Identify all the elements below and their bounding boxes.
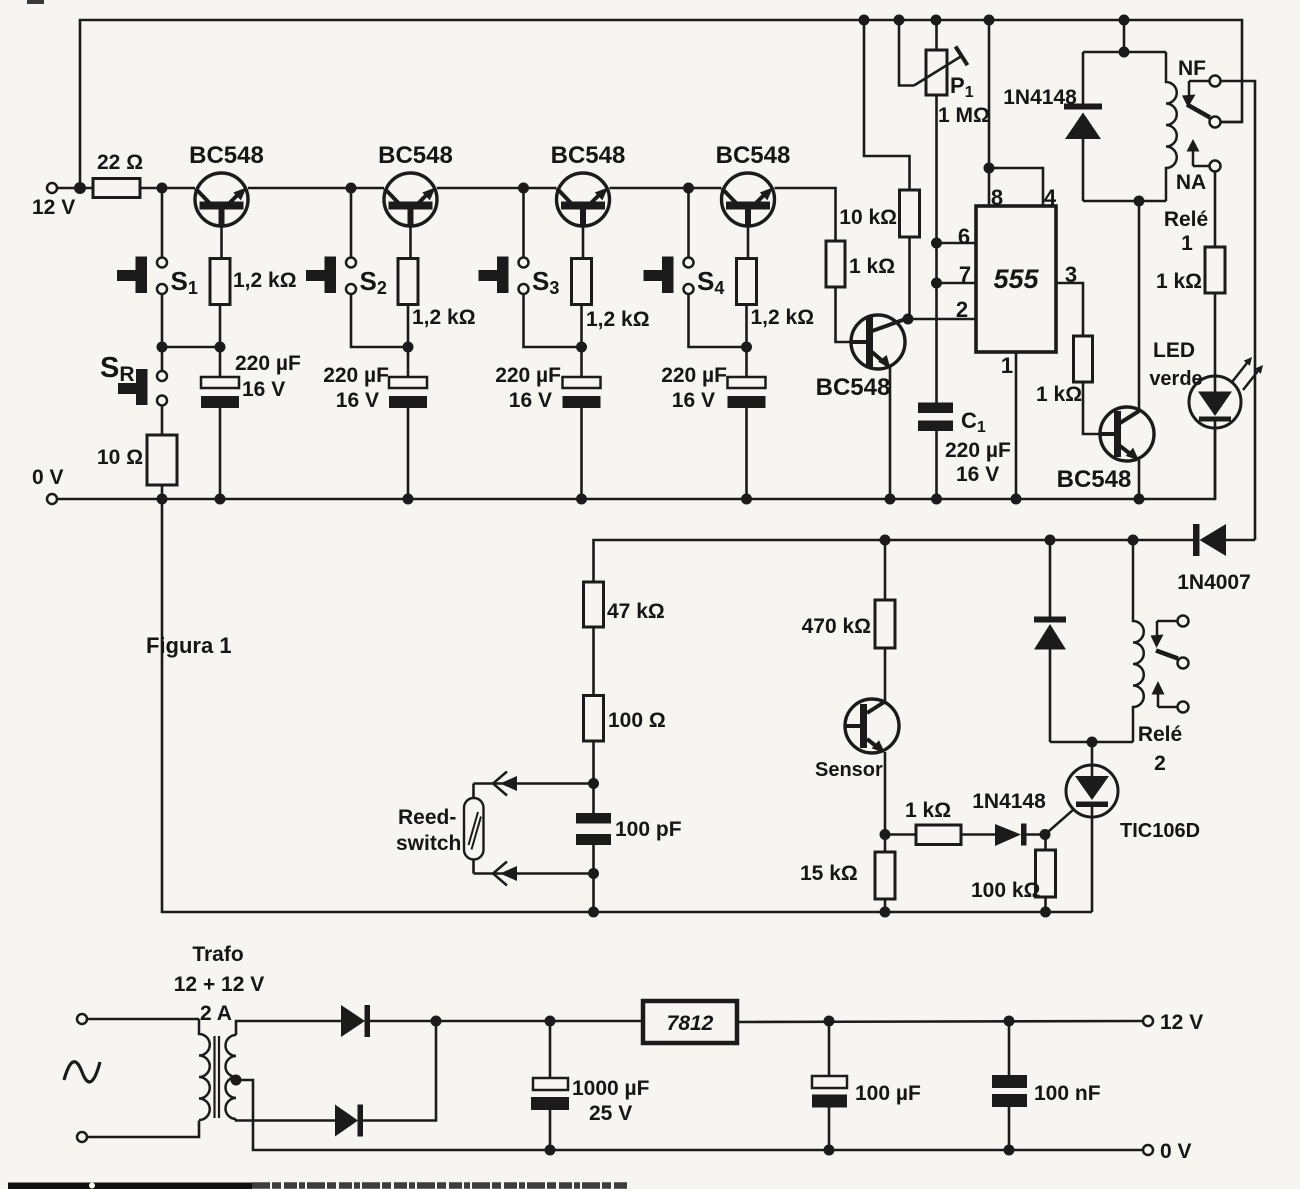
- svg-text:Relé: Relé: [1138, 723, 1182, 746]
- node pins 8-4 junction: [984, 163, 995, 174]
- wire LED cathode to 0V: [1214, 421, 1217, 499]
- capacitor 100 pF: [576, 813, 611, 845]
- svg-text:LED: LED: [1153, 339, 1195, 362]
- switch S1 pushbutton: [117, 257, 167, 295]
- relay 1 coil: [1166, 52, 1177, 201]
- node S3 tap: [518, 183, 529, 194]
- wire 1N4007 anode: [1226, 539, 1255, 542]
- node pin6 junction: [931, 238, 942, 249]
- contact NA relay 2: [1178, 702, 1189, 713]
- wire cap to reed lower node: [592, 845, 595, 874]
- svg-text:1,2 kΩ: 1,2 kΩ: [586, 308, 650, 331]
- wire C1 to 0V: [935, 431, 938, 499]
- wire 100nF bottom: [1008, 1107, 1011, 1150]
- svg-text:1 kΩ: 1 kΩ: [849, 255, 895, 278]
- svg-text:16 V: 16 V: [336, 389, 379, 412]
- svg-text:1,2 kΩ: 1,2 kΩ: [233, 269, 297, 292]
- wire 47k to 100ohm: [592, 627, 595, 696]
- svg-text:Figura 1: Figura 1: [146, 633, 232, 658]
- diode relay 2: [1034, 617, 1066, 650]
- arrow NA: [1187, 139, 1200, 152]
- wire secondary bottom to D2: [236, 1119, 335, 1121]
- svg-text:16 V: 16 V: [956, 463, 999, 486]
- svg-text:100 pF: 100 pF: [615, 818, 682, 841]
- svg-text:220 µF: 220 µF: [945, 439, 1011, 462]
- resistor 100 kohm: [1036, 850, 1056, 897]
- svg-text:6: 6: [958, 224, 970, 249]
- svg-text:22 Ω: 22 Ω: [97, 151, 143, 174]
- svg-text:1000 µF: 1000 µF: [572, 1077, 650, 1100]
- wire resistor to junction stage 2: [407, 305, 410, 348]
- diode D1: [341, 1005, 370, 1037]
- svg-text:220 µF: 220 µF: [661, 364, 727, 387]
- wire reed top lead: [472, 784, 475, 799]
- wire TIC anode: [1091, 742, 1094, 777]
- scan artifact bottom strip: [8, 1183, 628, 1189]
- wire Q4 emitter to 1k: [775, 188, 836, 241]
- wire Q6 collector to relay: [1138, 201, 1141, 411]
- IC U1 555 timer: [976, 206, 1056, 352]
- svg-text:BC548: BC548: [378, 142, 453, 169]
- wire 100uF bottom: [828, 1108, 831, 1151]
- switch S4 pushbutton: [644, 257, 694, 295]
- svg-text:1N4007: 1N4007: [1177, 571, 1251, 594]
- wire diode to gate node: [1027, 833, 1046, 836]
- wire P1 bottom to C1: [935, 95, 938, 403]
- node D1 D2 junction: [431, 1016, 442, 1027]
- resistor 15 kohm: [875, 852, 895, 899]
- svg-text:2: 2: [956, 297, 968, 322]
- capacitor 220uF stage 3: [563, 377, 601, 408]
- wire reed upper arrow line: [474, 782, 594, 785]
- svg-text:1 MΩ: 1 MΩ: [938, 104, 990, 127]
- wire SR to 10ohm: [161, 406, 164, 435]
- svg-text:7: 7: [959, 262, 971, 287]
- node 100k ground: [1040, 907, 1051, 918]
- svg-text:NF: NF: [1178, 57, 1206, 80]
- svg-text:555: 555: [993, 264, 1039, 294]
- svg-text:100 nF: 100 nF: [1034, 1082, 1101, 1105]
- wire 100k to ground: [1044, 897, 1047, 912]
- wire relay2 diode bottom: [1049, 649, 1052, 742]
- node 100uF ground: [824, 1145, 835, 1156]
- wire 0V rail: [57, 426, 1215, 499]
- contact common relay 1: [1210, 117, 1221, 128]
- svg-text:1 kΩ: 1 kΩ: [905, 799, 951, 822]
- svg-text:16 V: 16 V: [672, 389, 715, 412]
- svg-text:Trafo: Trafo: [192, 943, 243, 966]
- wire to S3: [522, 188, 525, 258]
- svg-text:1,2 kΩ: 1,2 kΩ: [751, 306, 815, 329]
- wire AC top to primary: [87, 1018, 199, 1021]
- svg-text:220 µF: 220 µF: [235, 352, 301, 375]
- svg-text:3: 3: [1065, 262, 1077, 287]
- wire cap to 0V stage 4: [745, 408, 748, 499]
- svg-text:1: 1: [1001, 353, 1013, 378]
- svg-text:220 µF: 220 µF: [495, 364, 561, 387]
- node 100uF tap: [824, 1016, 835, 1027]
- svg-text:10 kΩ: 10 kΩ: [839, 206, 897, 229]
- wire resistor to junction stage 1: [219, 305, 222, 348]
- wire 1k to Q6 base: [1083, 382, 1100, 434]
- wire wiper: [899, 20, 914, 86]
- node R2C2 junction: [403, 342, 414, 353]
- node rail relay feed: [1119, 15, 1130, 26]
- wire TIC cathode: [1091, 807, 1094, 912]
- svg-text:1,2 kΩ: 1,2 kΩ: [412, 306, 476, 329]
- node 0V SR column: [157, 494, 168, 505]
- wire D1 to regulator: [370, 1020, 643, 1023]
- terminal 0 V: [47, 494, 57, 504]
- svg-text:12 V: 12 V: [32, 196, 75, 219]
- resistor 1 kohm base Q5: [826, 241, 845, 287]
- wire S3 to node: [524, 295, 582, 348]
- wire rail to relay top: [1123, 20, 1126, 52]
- potentiometer P1 1 Mohm: [914, 47, 968, 96]
- wire pin6 stub: [937, 242, 977, 245]
- node R3C3 junction: [576, 342, 587, 353]
- node pin7 junction: [931, 278, 942, 289]
- wire NA to 1k: [1214, 172, 1217, 247]
- node S2 tap: [346, 183, 357, 194]
- capacitor 1000uF 25V: [531, 1078, 569, 1110]
- wire relay2 NA lead: [1158, 706, 1178, 709]
- terminal 0 V output: [1143, 1145, 1153, 1155]
- transistor Q6 BC548: [1100, 407, 1154, 461]
- wire 1k to diode: [961, 833, 995, 836]
- wire secondary top to D1: [236, 1021, 341, 1035]
- node reed lower: [588, 868, 599, 879]
- resistor 100 ohm: [584, 696, 604, 742]
- svg-text:TIC106D: TIC106D: [1120, 820, 1200, 842]
- node 0V stage 4: [741, 494, 752, 505]
- node reed upper: [588, 778, 599, 789]
- wire to S4: [687, 188, 690, 258]
- node relay2 diode tap: [1045, 535, 1056, 546]
- node middle ground cap: [588, 907, 599, 918]
- wire junction to cap stage 3: [580, 347, 583, 377]
- svg-text:8: 8: [991, 185, 1003, 210]
- wire cap to 0V stage 3: [580, 408, 583, 499]
- wire 1k to LED: [1214, 293, 1217, 392]
- wire 1000uF top: [549, 1021, 552, 1078]
- transformer core: [213, 1036, 215, 1118]
- resistor 1,2 kohm stage 3: [572, 259, 592, 305]
- wire junction to cap stage 1: [219, 347, 222, 377]
- wire pin7 stub: [937, 282, 977, 285]
- node 12V rail junction: [74, 182, 86, 194]
- wire 22ohm to Q1: [140, 187, 195, 190]
- wire to S2: [350, 188, 353, 258]
- node R4C4 junction: [741, 342, 752, 353]
- wire 10k to rail: [864, 20, 910, 190]
- wire 10k to pin2 junction: [908, 237, 911, 319]
- node pin1 0V: [1011, 494, 1022, 505]
- svg-text:15 kΩ: 15 kΩ: [800, 862, 858, 885]
- wire gate tap to 1k: [885, 833, 916, 836]
- wire 12V top rail: [80, 20, 1242, 188]
- node S1 tap: [157, 183, 168, 194]
- capacitor 220uF stage 2: [389, 377, 427, 408]
- wire cap to 0V stage 2: [407, 408, 410, 499]
- svg-text:BC548: BC548: [716, 142, 791, 169]
- resistor 1 kohm pin3: [1074, 336, 1093, 382]
- resistor 22 ohm: [93, 179, 140, 198]
- wire resistor to junction stage 4: [745, 305, 748, 348]
- scan artifact top edge: [27, 0, 44, 4]
- capacitor 220uF stage 1: [201, 377, 239, 408]
- node 470k tap: [880, 535, 891, 546]
- svg-text:1: 1: [1181, 232, 1193, 255]
- wire relay2 diode top: [1049, 540, 1052, 617]
- svg-text:0 V: 0 V: [1160, 1140, 1192, 1163]
- arrow reed upper: [500, 776, 517, 791]
- wire 15k to ground: [884, 899, 887, 912]
- svg-text:10 Ω: 10 Ω: [97, 446, 143, 469]
- transistor Sensor: [845, 699, 899, 753]
- capacitor 100nF: [992, 1075, 1027, 1107]
- resistor 1 kohm gate: [916, 825, 961, 845]
- wire Q4 base to resistor: [747, 226, 750, 259]
- wire relay2 NF lead: [1157, 620, 1178, 623]
- node relay2 coil tap: [1128, 535, 1139, 546]
- wire relay top link: [1083, 51, 1166, 54]
- LED light arrows: [1232, 357, 1263, 390]
- node C1 0V: [931, 494, 942, 505]
- transformer primary: [199, 1019, 210, 1120]
- node Q5 emitter 0V: [885, 494, 896, 505]
- svg-text:470 kΩ: 470 kΩ: [802, 615, 871, 638]
- contact NF relay 1: [1210, 76, 1221, 87]
- node TIC anode junction: [1087, 737, 1098, 748]
- diode 1N4007: [1193, 524, 1226, 556]
- wire to S1: [161, 188, 164, 258]
- svg-text:BC548: BC548: [551, 142, 626, 169]
- wire NF arrow lead: [1189, 80, 1210, 83]
- terminal AC bottom: [77, 1132, 87, 1142]
- wire pin2 stub: [908, 318, 976, 321]
- wire common to rail: [1221, 121, 1242, 124]
- AC source symbol: [64, 1062, 100, 1082]
- arrow NF: [1182, 95, 1196, 108]
- node 1000uF ground: [545, 1145, 556, 1156]
- node rail P1 wiper: [894, 15, 905, 26]
- svg-text:NA: NA: [1176, 171, 1206, 194]
- wire pin1 to 0V: [1015, 352, 1018, 499]
- wire S1 node to SR: [161, 347, 164, 371]
- wire Q5 emitter to 0V: [889, 367, 892, 499]
- resistor 1 kohm LED: [1205, 247, 1225, 293]
- diode 1N4148 relay 1: [1064, 52, 1102, 201]
- arrow relay2 NF: [1151, 635, 1164, 649]
- relay 2 coil: [1133, 540, 1144, 742]
- svg-text:16 V: 16 V: [509, 389, 552, 412]
- wire 12V terminal to 22ohm: [57, 187, 93, 190]
- wire 1k to Q5 base: [836, 287, 852, 342]
- svg-text:BC548: BC548: [189, 142, 264, 169]
- resistor 1,2 kohm stage 4: [737, 259, 757, 305]
- wire cap to 0V stage 1: [219, 408, 222, 499]
- resistor 10 kohm: [900, 190, 920, 237]
- transistor Q1 BC548: [195, 173, 248, 227]
- wire Q6 emitter to 0V: [1138, 460, 1141, 499]
- wire 1000uF bottom: [549, 1110, 552, 1150]
- transistor Q2 BC548: [384, 173, 437, 227]
- transistor Q4 BC548: [722, 173, 775, 227]
- terminal 12 V output: [1143, 1016, 1153, 1026]
- switch S2 pushbutton: [306, 257, 356, 295]
- resistor 470 kohm: [875, 600, 895, 648]
- svg-text:12 V: 12 V: [1160, 1011, 1203, 1034]
- node 0V stage 2: [403, 494, 414, 505]
- diode D2: [335, 1105, 363, 1137]
- wire 100uF top: [828, 1021, 831, 1076]
- resistor 47 kohm: [584, 582, 604, 627]
- wire resistor to junction stage 3: [580, 305, 583, 348]
- wire D2 to junction: [363, 1021, 436, 1121]
- wire center tap to 0V: [236, 1080, 1143, 1150]
- contact NF relay 2: [1178, 616, 1189, 627]
- wire to middle ground: [592, 874, 595, 913]
- node 0V stage 3: [576, 494, 587, 505]
- node R1C1 junction: [215, 342, 226, 353]
- wire S1 to node: [162, 295, 220, 348]
- resistor 10 ohm: [147, 435, 177, 485]
- wire emitter to next collector: [437, 187, 557, 190]
- terminal AC top: [77, 1014, 87, 1024]
- wire pin4: [989, 168, 1043, 206]
- wire NF to 1N4007 column: [1221, 81, 1255, 540]
- wire gate diagonal: [1045, 809, 1074, 834]
- wire Q2 base to resistor: [409, 226, 412, 259]
- resistor 1,2 kohm stage 2: [398, 259, 418, 305]
- svg-text:Relé: Relé: [1164, 208, 1208, 231]
- svg-text:1N4148: 1N4148: [972, 790, 1046, 813]
- arrow relay2 NA: [1152, 681, 1165, 695]
- armature relay 2: [1156, 651, 1178, 659]
- wire 100ohm to cap node: [592, 741, 595, 813]
- capacitor 100uF: [812, 1076, 847, 1108]
- wire reed bottom lead: [472, 860, 475, 874]
- wire emitter to next collector: [248, 187, 384, 190]
- wire junction to cap stage 2: [407, 347, 410, 377]
- svg-text:BC548: BC548: [1057, 466, 1132, 493]
- node Q6 emitter 0V: [1134, 494, 1145, 505]
- wire 470k to sensor: [884, 648, 887, 702]
- wire sensor emitter: [884, 752, 887, 852]
- node S4 tap: [683, 183, 694, 194]
- arrow reed lower: [500, 866, 517, 881]
- svg-text:12 + 12 V: 12 + 12 V: [174, 973, 265, 996]
- svg-text:BC548: BC548: [816, 374, 891, 401]
- diode 1N4148 gate: [995, 824, 1027, 847]
- transistor Q3 BC548: [557, 173, 610, 227]
- node 15k ground: [880, 907, 891, 918]
- wire middle supply rail: [594, 540, 1194, 582]
- svg-text:2 A: 2 A: [200, 1002, 232, 1025]
- svg-text:switch: switch: [396, 832, 461, 855]
- transformer secondary: [226, 1035, 237, 1119]
- wire 470k top: [884, 540, 887, 600]
- wire pin8: [988, 168, 991, 206]
- svg-text:100 Ω: 100 Ω: [608, 709, 666, 732]
- switch SR pushbutton: [118, 369, 167, 406]
- wire S2 to node: [351, 295, 408, 348]
- wire AC bottom to primary: [87, 1121, 199, 1138]
- node rail 555 supply: [984, 15, 995, 26]
- svg-text:7812: 7812: [667, 1012, 714, 1035]
- capacitor C1 220uF: [918, 403, 953, 432]
- wire regulator out: [737, 1021, 1143, 1022]
- node S1 lower junction: [157, 342, 168, 353]
- svg-text:25 V: 25 V: [589, 1102, 632, 1125]
- node relay bottom junction: [1134, 196, 1145, 207]
- contact NA relay 1: [1210, 161, 1221, 172]
- wire emitter to next collector: [610, 187, 722, 190]
- node pin2 junction: [903, 314, 914, 325]
- svg-text:16 V: 16 V: [242, 378, 285, 401]
- svg-text:Reed-: Reed-: [398, 806, 456, 829]
- contact common relay 2: [1178, 658, 1189, 669]
- wire Q3 base to resistor: [582, 226, 585, 259]
- svg-text:0 V: 0 V: [32, 466, 64, 489]
- wire 100k top: [1044, 835, 1047, 851]
- wire reed lower arrow line: [474, 872, 594, 875]
- node rail to 10k: [859, 15, 870, 26]
- svg-text:1 kΩ: 1 kΩ: [1156, 270, 1202, 293]
- wire relay bottom link: [1083, 200, 1166, 203]
- node center tap: [231, 1075, 242, 1086]
- wire 0V to middle ground rail: [162, 499, 1092, 912]
- wire 10ohm to 0V: [161, 485, 164, 499]
- capacitor 220uF stage 4: [728, 377, 766, 408]
- wire S4 to node: [689, 295, 747, 348]
- node 100nF tap: [1004, 1016, 1015, 1027]
- svg-text:verde: verde: [1149, 368, 1202, 390]
- wire P1 top: [935, 20, 938, 50]
- terminal 12 V input: [47, 183, 57, 193]
- node 100nF ground: [1004, 1145, 1015, 1156]
- svg-text:220 µF: 220 µF: [323, 364, 389, 387]
- wire Q1 base to resistor: [220, 226, 223, 259]
- regulator 7812: [643, 1001, 737, 1043]
- wire 100nF top: [1008, 1021, 1011, 1075]
- wire NA arrow lead: [1193, 165, 1210, 168]
- wire junction to cap stage 4: [745, 347, 748, 377]
- svg-text:2: 2: [1154, 752, 1166, 775]
- node gate junction: [1040, 829, 1051, 840]
- node 0V stage 1: [215, 494, 226, 505]
- svg-text:100 kΩ: 100 kΩ: [971, 879, 1040, 902]
- LED verde: [1189, 376, 1241, 428]
- transistor Q5 BC548: [851, 315, 907, 369]
- node rail P1 top: [931, 15, 942, 26]
- svg-text:1 kΩ: 1 kΩ: [1036, 383, 1082, 406]
- svg-text:100 µF: 100 µF: [855, 1082, 921, 1105]
- svg-text:1N4148: 1N4148: [1003, 86, 1077, 109]
- svg-text:4: 4: [1044, 185, 1057, 210]
- node relay top junction: [1119, 47, 1130, 58]
- node gate tap: [880, 829, 891, 840]
- resistor 1,2 kohm stage 1: [210, 259, 230, 305]
- thyristor TIC106D: [1066, 765, 1118, 817]
- armature relay 1: [1187, 105, 1210, 118]
- node 1000uF tap: [545, 1016, 556, 1027]
- wire relay2 bottom link: [1050, 741, 1133, 744]
- wire pin8 to rail: [988, 20, 991, 168]
- svg-text:47 kΩ: 47 kΩ: [607, 600, 665, 623]
- switch S3 pushbutton: [479, 257, 529, 295]
